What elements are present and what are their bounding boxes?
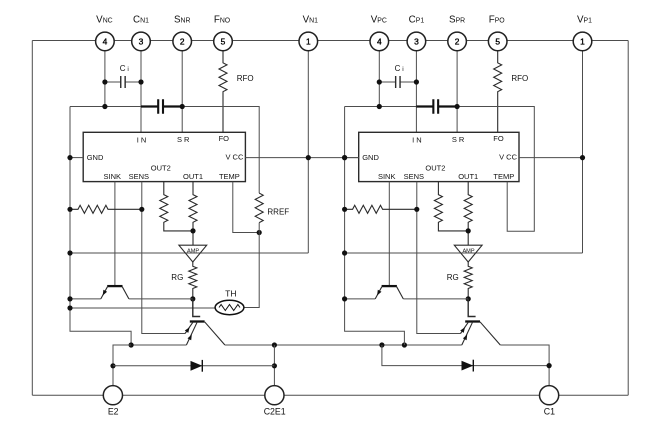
terminal VN1 circle bbox=[299, 32, 318, 51]
diode D2 bbox=[462, 361, 474, 371]
wire emitter-2 to E2 node (N-side) bbox=[131, 344, 186, 346]
capacitor Ci (N-side) bbox=[121, 76, 125, 88]
resistor on OUT2 (P-side) bbox=[434, 182, 468, 231]
wire VCC to VP1 bbox=[519, 157, 583, 159]
junction P-side GND vertical at VCC wire bbox=[342, 155, 347, 160]
svg-text:RREF: RREF bbox=[267, 207, 289, 216]
junction OUT1-OUT2 (N-side) bbox=[190, 228, 195, 233]
wire Ci right lead (N-side) bbox=[125, 81, 141, 83]
transistor Q3 emitter arrow (P-side) bbox=[377, 290, 381, 296]
resistor RREF (N-side) bbox=[255, 193, 263, 223]
wire bold cap left lead (P-side) bbox=[416, 105, 433, 107]
wire VCC to VN1 and P-side GND bbox=[245, 157, 358, 159]
op-amp AMP (P-side) bbox=[454, 245, 482, 262]
junction Ci left (P-side) bbox=[377, 79, 382, 84]
junction bias rail at ground vertical (N-side) bbox=[67, 296, 72, 301]
transistor Q3 emitter (P-side) bbox=[375, 287, 382, 299]
transistor Q3 collector (P-side) bbox=[397, 287, 404, 299]
junction terminal-4 lead at input net (P-side) bbox=[377, 104, 382, 109]
junction SR at coupling cap (N-side) bbox=[180, 104, 185, 109]
wire TH rail (N-side) bbox=[70, 307, 215, 309]
svg-text:C i: C i bbox=[395, 64, 404, 73]
svg-text:GND: GND bbox=[362, 153, 379, 162]
wire right border bbox=[627, 41, 629, 396]
op-amp AMP (N-side) bbox=[179, 245, 207, 262]
terminal CN1 circle bbox=[132, 32, 151, 51]
terminal VNC circle bbox=[96, 32, 115, 51]
svg-text:E2: E2 bbox=[108, 407, 119, 417]
svg-text:C2E1: C2E1 bbox=[264, 407, 286, 417]
junction C1 lead at diode rail bbox=[547, 363, 552, 368]
junction VCC at VN1 line bbox=[306, 155, 311, 160]
svg-text:5: 5 bbox=[495, 37, 500, 47]
wire top rail bbox=[32, 40, 628, 42]
svg-text:SINK: SINK bbox=[378, 172, 396, 181]
svg-text:S R: S R bbox=[177, 135, 190, 144]
capacitor coupling (N-side) bbox=[158, 99, 163, 113]
junction sense resistor left (P-side) bbox=[342, 207, 347, 212]
resistor on OUT1 (N-side) bbox=[189, 182, 197, 246]
transistor Q4 emitter-1 arrow (P-side) bbox=[460, 327, 465, 333]
svg-text:3: 3 bbox=[139, 37, 144, 47]
svg-text:V CC: V CC bbox=[225, 153, 244, 162]
wire GND pin to vertical (N-side) bbox=[70, 157, 83, 159]
junction E2 lead at diode rail bbox=[110, 363, 115, 368]
wire input net horizontal (N-side) bbox=[70, 106, 141, 108]
svg-text:I N: I N bbox=[137, 135, 147, 144]
wire N-side ground vertical bbox=[70, 107, 131, 346]
svg-text:OUT1: OUT1 bbox=[458, 172, 478, 181]
junction RG bottom (N-side) bbox=[190, 296, 195, 301]
junction bias rail at ground vertical (P-side) bbox=[342, 296, 347, 301]
svg-text:C i: C i bbox=[120, 64, 129, 73]
wire terminal-2 lead SNR to SR pin bbox=[181, 41, 183, 132]
terminal C2E1 circle bbox=[265, 386, 284, 405]
junction RG bottom (P-side) bbox=[466, 296, 471, 301]
svg-text:SINK: SINK bbox=[104, 172, 122, 181]
wire input net horizontal (P-side) bbox=[345, 106, 417, 108]
wire terminal-3 lead CP1 to IN pin bbox=[415, 41, 417, 132]
junction collector rail at P-side ground return bbox=[402, 342, 407, 347]
wire E2 drop bbox=[113, 345, 131, 386]
svg-text:1: 1 bbox=[306, 37, 311, 47]
svg-text:5: 5 bbox=[221, 37, 226, 47]
svg-text:RFO: RFO bbox=[237, 74, 254, 83]
transistor Q2 emitter-2 (N-side) bbox=[186, 322, 197, 345]
svg-text:V CC: V CC bbox=[499, 153, 518, 162]
wire output feedback rail (N-side) bbox=[70, 252, 308, 254]
junction GND vertical (P-side) bbox=[342, 155, 347, 160]
thermistor TH zigzag bbox=[219, 305, 240, 311]
transistor Q3 base bar (P-side) bbox=[382, 285, 397, 287]
wire terminal-2 lead SPR to SR pin bbox=[456, 41, 458, 132]
svg-text:OUT2: OUT2 bbox=[151, 163, 171, 172]
transistor Q2 base bar (N-side) bbox=[190, 320, 205, 322]
resistor RFO (P-side) on FO lead bbox=[494, 41, 502, 132]
terminal VP1 circle bbox=[573, 32, 592, 51]
wire bold cap right lead (P-side) bbox=[438, 105, 457, 107]
capacitor Ci (P-side) bbox=[396, 76, 400, 88]
wire GND pin to vertical (P-side) bbox=[345, 157, 359, 159]
wire TEMP pin to RREF bottom (N-side) bbox=[233, 182, 259, 233]
transistor Q2 emitter-2 arrow (N-side) bbox=[188, 335, 192, 341]
wire SR net to RREF corner (P-side) bbox=[457, 107, 534, 194]
svg-text:2: 2 bbox=[180, 37, 185, 47]
svg-text:SENS: SENS bbox=[129, 172, 149, 181]
resistor RFO (N-side) on FO lead bbox=[219, 41, 227, 132]
wire bold cap right lead (N-side) bbox=[163, 105, 182, 107]
junction GND vertical (N-side) bbox=[67, 155, 72, 160]
svg-text:4: 4 bbox=[377, 37, 382, 47]
wire terminal-1 lead VN1 bbox=[307, 41, 309, 253]
transistor Q1 collector (N-side) bbox=[122, 287, 129, 299]
thermistor TH body bbox=[215, 300, 244, 314]
transistor Q2 emitter-1 arrow (N-side) bbox=[185, 327, 190, 333]
svg-text:C1: C1 bbox=[544, 407, 555, 417]
wire TEMP pin to reference wire (P-side) bbox=[507, 182, 534, 232]
terminal SNR circle bbox=[173, 32, 192, 51]
junction collector rail at C2E1 bbox=[272, 342, 277, 347]
transistor Q1 emitter arrow (N-side) bbox=[103, 290, 107, 296]
wire output feedback rail (P-side) bbox=[345, 252, 583, 254]
svg-text:OUT1: OUT1 bbox=[183, 172, 203, 181]
diode D1 bbox=[191, 361, 203, 371]
wire Ci left lead (N-side) bbox=[105, 81, 121, 83]
wire Ci left lead (P-side) bbox=[379, 81, 395, 83]
junction feedback rail at ground vertical (N-side) bbox=[67, 250, 72, 255]
wire bias rail right part (N-side) bbox=[129, 298, 193, 300]
transistor Q4 emitter-2 (P-side) bbox=[462, 322, 473, 345]
junction sense resistor right at SENS (P-side) bbox=[414, 207, 419, 212]
resistor sense (P-side) bbox=[345, 205, 417, 213]
junction OUT1-OUT2 (P-side) bbox=[466, 228, 471, 233]
terminal FNO circle bbox=[214, 32, 233, 51]
svg-text:OUT2: OUT2 bbox=[425, 163, 445, 172]
transistor Q1 base bar (N-side) bbox=[107, 285, 122, 287]
wire bias rail left part (N-side) bbox=[70, 298, 101, 300]
svg-text:4: 4 bbox=[103, 37, 108, 47]
wire left border bbox=[31, 41, 33, 396]
transistor Q4 emitter-1 (P-side) bbox=[461, 322, 469, 334]
wire terminal-4 lead VNC bbox=[104, 41, 106, 106]
junction E2 branch (N-side) bbox=[129, 342, 134, 347]
terminal CP1 circle bbox=[407, 32, 426, 51]
svg-text:S R: S R bbox=[452, 135, 465, 144]
wire SINK pin lead (N-side) bbox=[114, 182, 116, 285]
svg-text:FO: FO bbox=[219, 134, 230, 143]
wire bold cap left lead (N-side) bbox=[141, 105, 158, 107]
junction RREF bottom (N-side) bbox=[257, 230, 262, 235]
wire RREF bottom to TH (N-side) bbox=[244, 223, 259, 308]
wire terminal-1 lead VP1 bbox=[582, 41, 584, 253]
wire collector rail to P-side bbox=[225, 344, 462, 346]
wire terminal-4 lead VPC bbox=[378, 41, 380, 106]
junction collector rail at P-side diode branch bbox=[379, 342, 384, 347]
wire diode D1 rail bbox=[113, 365, 274, 367]
transistor Q4 base bar (P-side) bbox=[465, 320, 480, 322]
junction C2E1 lead at diode rail bbox=[272, 363, 277, 368]
transistor Q4 collector (P-side) bbox=[480, 322, 500, 345]
resistor on OUT1 (P-side) bbox=[464, 182, 472, 246]
svg-text:RG: RG bbox=[447, 273, 459, 282]
svg-text:RFO: RFO bbox=[511, 74, 528, 83]
wire collector to C1 bbox=[500, 345, 549, 386]
junction Ci right (N-side) bbox=[138, 79, 143, 84]
transistor Q4 base lead (P-side) bbox=[468, 299, 475, 317]
junction feedback rail at ground vertical (P-side) bbox=[342, 250, 347, 255]
transistor Q2 emitter-1 (N-side) bbox=[185, 322, 193, 334]
wire terminal-3 lead CN1 to IN pin bbox=[140, 41, 142, 132]
junction sense resistor right at SENS (N-side) bbox=[139, 207, 144, 212]
junction TH rail at ground vertical (N-side) bbox=[67, 305, 72, 310]
wire P-side diode branch drop bbox=[382, 345, 549, 366]
junction Ci right (P-side) bbox=[414, 79, 419, 84]
svg-text:TEMP: TEMP bbox=[493, 172, 514, 181]
transistor Q2 base lead (N-side) bbox=[193, 299, 200, 317]
wire SR net to RREF corner (N-side) bbox=[182, 107, 259, 194]
svg-text:FO: FO bbox=[493, 134, 504, 143]
svg-text:SENS: SENS bbox=[404, 172, 424, 181]
wire bottom rail bbox=[32, 394, 628, 396]
junction sense resistor left (N-side) bbox=[67, 207, 72, 212]
wire Ci right lead (P-side) bbox=[400, 81, 416, 83]
svg-text:TEMP: TEMP bbox=[219, 172, 240, 181]
junction SR at coupling cap (P-side) bbox=[455, 104, 460, 109]
op-amp U1 driver block (N-side) bbox=[83, 132, 245, 181]
terminal C1 circle bbox=[540, 386, 559, 405]
svg-text:TH: TH bbox=[225, 288, 236, 298]
svg-text:AMP: AMP bbox=[187, 249, 199, 255]
svg-text:I N: I N bbox=[412, 135, 422, 144]
wire SINK pin lead (P-side) bbox=[388, 182, 390, 285]
terminal SPR circle bbox=[448, 32, 467, 51]
terminal FPO circle bbox=[488, 32, 507, 51]
wire bias rail left part (P-side) bbox=[345, 298, 376, 300]
transistor Q2 collector (N-side) bbox=[205, 322, 225, 345]
svg-text:AMP: AMP bbox=[462, 249, 474, 255]
svg-text:3: 3 bbox=[414, 37, 419, 47]
terminal E2 circle bbox=[103, 386, 122, 405]
svg-text:GND: GND bbox=[87, 153, 104, 162]
op-amp U2 driver block (P-side) bbox=[359, 132, 519, 181]
resistor on OUT2 (N-side) bbox=[160, 182, 193, 231]
transistor Q1 emitter (N-side) bbox=[101, 287, 108, 299]
junction VCC at VP1 line bbox=[580, 155, 585, 160]
capacitor coupling (P-side) bbox=[433, 99, 438, 113]
junction Ci left (N-side) bbox=[102, 79, 107, 84]
wire SENS pin lead (N-side) bbox=[142, 182, 185, 334]
svg-text:RG: RG bbox=[171, 273, 183, 282]
resistor RG (N-side) bbox=[189, 262, 197, 299]
wire SENS pin lead (P-side) bbox=[417, 182, 461, 334]
transistor Q4 emitter-2 arrow (P-side) bbox=[463, 335, 467, 341]
resistor sense (N-side) bbox=[70, 205, 142, 213]
svg-text:2: 2 bbox=[455, 37, 460, 47]
wire bias rail right part (P-side) bbox=[403, 298, 468, 300]
terminal VPC circle bbox=[370, 32, 389, 51]
svg-text:1: 1 bbox=[580, 37, 585, 47]
wire P-side ground vertical bbox=[345, 107, 405, 346]
resistor RG (P-side) bbox=[464, 262, 472, 299]
wire C2E1 drop bbox=[273, 345, 275, 386]
junction terminal-4 lead at input net (N-side) bbox=[102, 104, 107, 109]
